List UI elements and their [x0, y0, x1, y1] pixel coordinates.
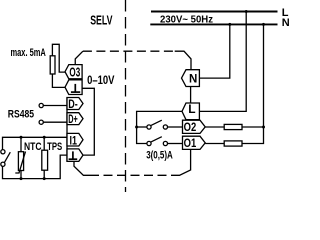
earth link dashed bottom	[74, 161, 90, 175]
switch S1 contact bottom	[1, 162, 5, 166]
terminal O3	[65, 65, 82, 79]
load L1	[224, 124, 242, 129]
svg-text:D+: D+	[68, 112, 78, 126]
mains line N	[150, 23, 277, 25]
junction dot L line	[245, 10, 248, 13]
wire N-drop to device N	[199, 24, 229, 78]
switch S1 blade	[4, 152, 10, 163]
switch S1 contact top	[1, 150, 5, 154]
wire GND a to GND b bus	[82, 88, 94, 155]
load L2	[224, 141, 242, 146]
terminal L	[182, 103, 199, 120]
wire resistor top to O3 tip	[52, 44, 65, 72]
junction dot TPS top	[43, 136, 46, 139]
svg-text:L: L	[188, 102, 195, 116]
terminal D+	[67, 113, 83, 125]
junction dot N line 2	[262, 23, 265, 26]
SELV boundary dashed line	[125, 0, 127, 192]
wire D+	[43, 121, 67, 123]
sensor circuit bottom bus	[3, 155, 68, 178]
TPS branch wire	[43, 137, 45, 150]
svg-text:N: N	[189, 74, 197, 86]
wire N-bus to loads	[242, 24, 264, 143]
sensor circuit top bus	[3, 137, 68, 149]
wire O2 to load	[205, 126, 224, 128]
switch S2 contact left	[147, 125, 151, 129]
thermistor NTC diagonal	[15, 152, 25, 174]
wire L to switches	[137, 111, 182, 143]
wire O1 to load	[205, 143, 224, 145]
wire resistor bottom to GND tip	[52, 74, 65, 87]
svg-text:D-: D-	[68, 97, 78, 111]
wire O3 to device N (dashed link)	[75, 51, 83, 64]
junction dot NTC top	[20, 136, 23, 139]
terminal GND a	[65, 80, 82, 95]
svg-text:TPS: TPS	[47, 141, 62, 153]
link N to L	[190, 87, 192, 104]
svg-text:I1: I1	[70, 134, 78, 148]
svg-text:230V~ 50Hz: 230V~ 50Hz	[160, 13, 213, 25]
wire load to bus	[242, 126, 264, 128]
wire to top switch	[137, 126, 147, 128]
switch S3 contact left	[147, 141, 151, 145]
junction dot NTC bottom	[20, 177, 23, 180]
svg-text:N: N	[282, 17, 289, 29]
svg-text:O3: O3	[69, 64, 80, 79]
svg-text:O2: O2	[184, 120, 197, 134]
svg-text:O1: O1	[184, 136, 197, 150]
switch S2 contact right	[163, 125, 167, 129]
junction dot switch feed	[135, 126, 138, 129]
connector housing left group2	[66, 98, 68, 162]
node D- open circle	[39, 103, 43, 107]
junction dot TPS bottom	[43, 177, 46, 180]
terminal N	[182, 70, 200, 87]
junction dot loads bus	[262, 126, 265, 129]
terminal O1	[183, 136, 206, 149]
junction dot N line	[228, 23, 231, 26]
svg-text:0–10V: 0–10V	[87, 73, 115, 87]
switch S2 blade	[151, 120, 162, 125]
svg-text:SELV: SELV	[90, 14, 113, 28]
node D+ open circle	[39, 120, 43, 124]
thermistor NTC body	[18, 152, 23, 171]
terminal O2	[183, 120, 206, 133]
sensor TPS body	[42, 150, 48, 170]
wire S3 to O1	[168, 143, 183, 145]
wire S2 to O2	[168, 126, 183, 128]
wire L-drop to device L	[199, 12, 246, 112]
wire D-	[43, 105, 67, 107]
terminal GND b	[67, 149, 83, 162]
svg-text:3(0,5)A: 3(0,5)A	[146, 150, 173, 162]
switch S3 contact right	[163, 141, 167, 145]
switch S3 blade	[151, 137, 162, 142]
svg-text:max. 5mA: max. 5mA	[11, 47, 46, 59]
svg-text:NTC: NTC	[24, 141, 42, 153]
NTC branch wire	[20, 137, 22, 151]
terminal I1	[67, 133, 83, 146]
resistor load R1	[50, 56, 55, 74]
terminal D-	[67, 98, 83, 110]
svg-text:RS485: RS485	[8, 109, 34, 121]
mains line L	[151, 11, 278, 13]
